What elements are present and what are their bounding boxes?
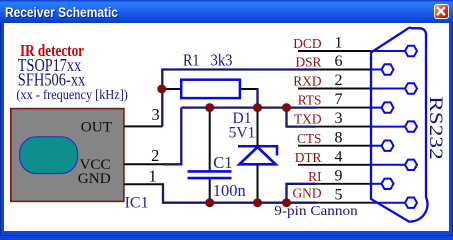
svg-text:3: 3 [335,110,343,127]
svg-text:2: 2 [335,72,343,89]
svg-text:CTS: CTS [297,131,322,146]
svg-text:6: 6 [335,53,343,70]
junction node 2 [205,103,214,112]
svg-text:RI: RI [308,169,321,184]
diode D1 zener bar [238,146,277,155]
junction node 7 [282,198,291,207]
resistor R1 leads [165,88,181,90]
diode D1 cathode lead [257,109,259,146]
wire R1 right to power rail [256,88,258,108]
connector pin 8 (CTS) [382,141,394,151]
wire IC1 pin 1 (GND) lead [124,183,164,185]
wire IC1 pin 2 (VCC) lead [124,163,164,165]
svg-text:(xx - frequency [kHz]): (xx - frequency [kHz]) [16,87,128,102]
capacitor C1 leads [209,109,211,171]
diode D1 triangle [240,147,276,164]
resistor R1 body [181,80,240,98]
svg-text:DCD: DCD [293,36,322,51]
connector pin 4 (DTR) [405,160,417,170]
junction node 6 [253,198,262,207]
wire lead CTS pin 8 [298,145,371,147]
svg-text:3k3: 3k3 [211,50,233,69]
capacitor C1 plates [188,171,232,178]
svg-text:3: 3 [151,105,159,124]
wire lead DCD pin 1 [298,50,371,52]
svg-text:RXD: RXD [293,74,322,89]
wire lead DTR pin 4 [298,164,371,166]
svg-text:IC1: IC1 [125,195,149,212]
connector pin 2 (RXD) [405,83,417,93]
svg-text:DTR: DTR [295,150,322,165]
junction node 5 [205,198,214,207]
wire IC1 pin 3 (OUT) lead [124,125,163,127]
wire OUT net vertical + to DSR [162,70,316,127]
connector X1 DB9 shell [371,28,428,222]
connector pin 1 (DCD) [405,46,417,56]
svg-text:2: 2 [151,146,159,165]
svg-text:GND: GND [78,170,111,187]
wire GND tie up to RI [287,184,317,203]
svg-text:RTS: RTS [298,93,322,108]
connector pin 7 (RTS) [382,102,394,112]
connector pin 5 (GND) [405,198,417,208]
svg-text:8: 8 [335,129,343,146]
junction node 3 [253,103,262,112]
svg-text:OUT: OUT [81,118,113,135]
wire VCC to power rail [163,108,181,165]
svg-text:4: 4 [335,148,343,165]
svg-text:5V1: 5V1 [229,125,256,142]
wire lead RTS pin 7 [316,107,371,109]
wire lead TXD pin 3 [316,126,371,128]
svg-text:R1: R1 [183,50,200,69]
wire power rail to RTS [181,106,316,108]
svg-text:100n: 100n [213,181,246,200]
svg-text:9: 9 [335,167,343,184]
wire power tie down to TXD [287,108,317,127]
op-amp IC1 (IR detector module body) [11,109,124,202]
connector pin 3 (TXD) [405,121,417,131]
svg-text:DSR: DSR [295,55,321,70]
svg-text:1: 1 [335,35,343,52]
svg-text:7: 7 [335,91,343,108]
svg-text:C1: C1 [213,153,232,172]
wire lead RXD pin 2 [298,88,371,90]
svg-text:RS232: RS232 [425,96,446,160]
wire lead DSR pin 6 [316,69,371,71]
wire GND rail [163,184,316,202]
svg-text:GND: GND [292,185,321,200]
wire lead GND pin 5 [316,202,371,204]
connector pin 6 (DSR) [382,64,394,74]
connector pin 9 (RI) [382,179,394,189]
junction node 1 [157,85,166,94]
wire lead RI pin 9 [316,183,371,185]
diode D1 anode lead [257,164,259,201]
svg-text:1: 1 [148,166,156,185]
svg-text:5: 5 [335,186,343,203]
junction node 4 [282,103,291,112]
svg-text:TXD: TXD [294,112,322,127]
svg-text:9-pin Cannon: 9-pin Cannon [274,203,358,218]
